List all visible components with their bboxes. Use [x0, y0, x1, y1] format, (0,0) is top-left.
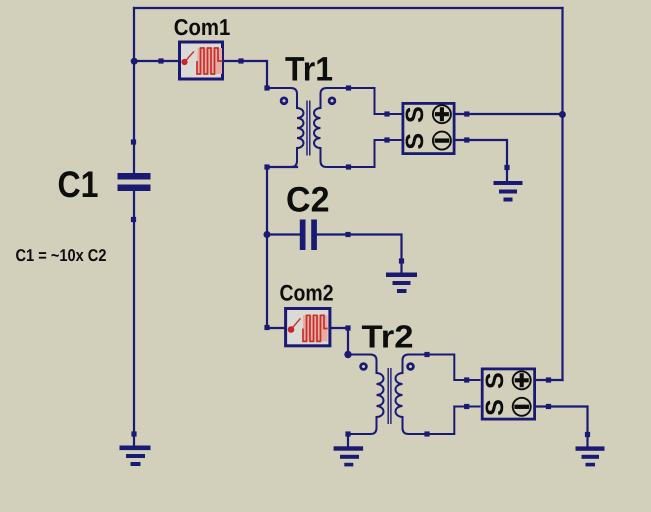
- S2 plus symbol: [513, 371, 531, 389]
- ground below C1: [120, 446, 151, 467]
- terminal block S2: [482, 369, 534, 419]
- svg-text:S: S: [481, 399, 509, 416]
- pin C1 top: [131, 139, 136, 144]
- svg-text:Com2: Com2: [280, 281, 334, 306]
- ground below C2: [386, 273, 417, 294]
- node junction at right rail / S1 plus: [559, 111, 566, 118]
- Tr2 polarity dot left: [361, 364, 367, 370]
- pin ground stub below C2: [399, 258, 404, 263]
- pin S1 minus output: [464, 137, 469, 142]
- wire node A to Com2 input: [267, 327, 284, 329]
- wire S2 minus output to ground stub: [536, 407, 588, 447]
- pin S2 minus output: [546, 404, 551, 409]
- pin squares: [131, 58, 590, 437]
- svg-text:C1: C1: [58, 164, 99, 205]
- svg-text:S: S: [401, 133, 429, 150]
- svg-text:Tr2: Tr2: [362, 319, 414, 355]
- pin ground stub below S1: [504, 165, 509, 170]
- wire top horizontal: [134, 7, 563, 9]
- pin Tr2 secondary top: [424, 352, 429, 357]
- wire C2 left: [267, 233, 300, 235]
- pin S1 plus output: [464, 111, 469, 116]
- pin C1 bottom: [131, 217, 136, 222]
- Tr1 core: [307, 101, 310, 156]
- pin Tr1 secondary bottom: [346, 164, 351, 169]
- ground below Tr2 primary: [334, 446, 364, 466]
- Tr1 secondary winding: [314, 88, 402, 167]
- wire S1 minus output to ground stub: [456, 140, 508, 181]
- S1 minus symbol: [433, 132, 451, 150]
- pin C2 right: [345, 232, 350, 237]
- wire Com2 output to Tr2 primary top: [332, 328, 349, 355]
- pin Com2 output: [345, 325, 350, 330]
- Tr2 primary winding: [348, 355, 384, 435]
- wire right vertical rail: [561, 8, 563, 380]
- pin ground stub below S2: [585, 432, 590, 437]
- terminal block S1: [403, 103, 454, 153]
- pin S2 plus input: [464, 377, 469, 382]
- node junction at Com1 input: [131, 58, 138, 65]
- Tr1 polarity dot left: [281, 98, 287, 104]
- node junction at C2: [264, 231, 271, 238]
- svg-text:C2: C2: [286, 180, 330, 220]
- pin Com1 output: [238, 58, 243, 63]
- Tr2 core: [388, 368, 391, 424]
- svg-text:Com1: Com1: [174, 14, 231, 40]
- S2 minus symbol: [513, 398, 531, 416]
- wire Tr1 primary bottom to node A: [267, 167, 297, 328]
- Tr1 polarity dot right: [329, 98, 335, 104]
- wire S1 plus output to right rail: [456, 113, 563, 115]
- relay Com2 box: [286, 309, 330, 346]
- transformer Tr2: [348, 355, 481, 435]
- pin S1 minus input: [384, 137, 389, 142]
- pin Tr2 secondary bottom: [424, 431, 429, 436]
- ground below S1 minus: [494, 181, 523, 202]
- svg-text:C1 = ~10x C2: C1 = ~10x C2: [16, 246, 107, 265]
- pin Tr1 primary bottom: [264, 164, 269, 169]
- S1 plus symbol: [433, 105, 451, 123]
- svg-text:S: S: [481, 372, 509, 389]
- capacitor C2: [300, 220, 317, 251]
- wire C2 right to ground stub: [317, 235, 402, 273]
- wire left vertical lower (C1 to ground): [133, 191, 135, 446]
- wire left vertical upper (top rail to C1): [133, 8, 135, 173]
- pin Tr1 secondary top: [346, 85, 351, 90]
- wire Com1 output to Tr1 primary top: [224, 61, 267, 88]
- pin S2 plus output: [546, 377, 551, 382]
- svg-text:S: S: [401, 106, 429, 123]
- relay Com2 coil symbol: [288, 315, 328, 341]
- transformer Tr1: [267, 88, 402, 167]
- Tr2 secondary winding: [396, 355, 481, 435]
- Tr1 primary winding: [267, 88, 304, 167]
- pin S1 plus input: [384, 111, 389, 116]
- ground below S2 minus: [576, 446, 605, 466]
- pin ground stub below C1: [131, 431, 136, 436]
- pin S2 minus input: [464, 404, 469, 409]
- pin Tr1 primary top: [264, 85, 269, 90]
- pin Com1 input: [158, 58, 163, 63]
- node junction at Tr2 primary top: [344, 351, 351, 358]
- Tr2 polarity dot right: [408, 364, 414, 370]
- wire Com1 input: [134, 60, 178, 62]
- capacitor C1: [118, 173, 151, 191]
- relay Com1 box: [180, 42, 223, 79]
- pin Com2 input: [264, 325, 269, 330]
- wire S2 plus output to right rail: [536, 379, 563, 381]
- relay Com1 coil symbol: [181, 48, 222, 74]
- pin Tr2 primary bottom: [345, 431, 350, 436]
- wire Tr2 primary bottom to ground: [347, 434, 349, 446]
- svg-text:Tr1: Tr1: [285, 50, 333, 88]
